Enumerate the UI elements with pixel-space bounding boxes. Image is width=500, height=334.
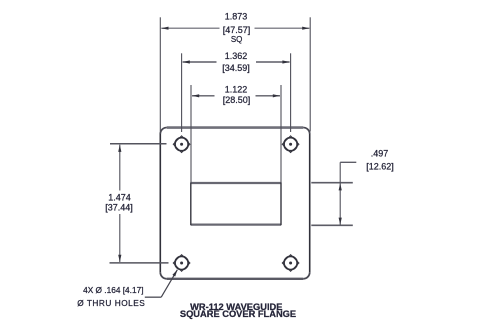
extension line right, aperture width dim bbox=[280, 85, 282, 183]
hole top-right bbox=[282, 136, 299, 153]
svg-text:1.474: 1.474 bbox=[108, 192, 131, 202]
arrowhead up .497 bbox=[339, 183, 342, 190]
dimension line 1.474 upper segment bbox=[119, 145, 121, 191]
dimension line 1.474 lower segment bbox=[119, 214, 121, 262]
dimension jog line .497 bbox=[340, 161, 356, 163]
arrowhead right 1.362 bbox=[282, 60, 289, 63]
dimension line 1.122 left segment bbox=[192, 95, 215, 97]
leader stub from hole note bbox=[145, 296, 161, 298]
arrowhead right 1.873 bbox=[302, 27, 309, 30]
hole top-left bbox=[173, 136, 190, 153]
svg-text:1.122: 1.122 bbox=[225, 85, 248, 95]
svg-text:[28.50]: [28.50] bbox=[223, 95, 251, 105]
leader diagonal to bottom-left hole bbox=[161, 270, 177, 297]
svg-text:SQUARE COVER FLANGE: SQUARE COVER FLANGE bbox=[180, 309, 296, 319]
extension line left, aperture width dim bbox=[190, 85, 192, 183]
arrowhead left 1.362 bbox=[183, 60, 190, 63]
svg-text:Ø THRU HOLES: Ø THRU HOLES bbox=[77, 298, 145, 308]
arrowhead right 1.122 bbox=[273, 94, 280, 97]
extension line top, aperture height dim bbox=[311, 182, 353, 184]
svg-text:1.362: 1.362 bbox=[225, 51, 248, 61]
extension line bottom, aperture height dim bbox=[311, 224, 353, 226]
extension line top, vertical hole-span dim bbox=[110, 143, 167, 145]
svg-text:[37.44]: [37.44] bbox=[105, 203, 133, 213]
svg-text:[34.59]: [34.59] bbox=[222, 63, 250, 73]
waveguide aperture rectangle bbox=[191, 182, 281, 225]
dimension line 1.122 right segment bbox=[256, 95, 281, 97]
flange plate outline bbox=[160, 128, 309, 279]
arrowhead left 1.873 bbox=[161, 27, 168, 30]
arrowhead left 1.122 bbox=[192, 94, 199, 97]
extension line left, hole-span dim bbox=[181, 53, 183, 132]
extension line left, flange width dim bbox=[159, 17, 161, 131]
svg-text:4X Ø .164 [4.17]: 4X Ø .164 [4.17] bbox=[83, 285, 143, 295]
extension line right, hole-span dim bbox=[290, 53, 292, 132]
dimension line 1.362 right segment bbox=[256, 61, 290, 63]
extension line bottom, vertical hole-span dim bbox=[110, 262, 169, 264]
dimension line 1.362 left segment bbox=[183, 61, 217, 63]
hole bottom-left bbox=[173, 255, 190, 272]
svg-text:1.873: 1.873 bbox=[225, 12, 248, 22]
dimension line .497 vertical bbox=[339, 162, 341, 224]
dimension line 1.873 left segment bbox=[161, 27, 219, 29]
hole bottom-right bbox=[282, 255, 299, 272]
svg-text:[47.57]: [47.57] bbox=[223, 25, 251, 35]
arrowhead down .497 bbox=[339, 218, 342, 225]
extension line right, flange width dim bbox=[309, 17, 311, 131]
dimension line 1.873 right segment bbox=[255, 27, 310, 29]
svg-text:SQ: SQ bbox=[231, 35, 243, 44]
leader arrowhead bbox=[172, 270, 177, 277]
svg-text:[12.62]: [12.62] bbox=[366, 162, 394, 172]
arrowhead up 1.474 bbox=[118, 145, 121, 152]
arrowhead down 1.474 bbox=[118, 255, 121, 262]
svg-text:.497: .497 bbox=[371, 149, 389, 159]
